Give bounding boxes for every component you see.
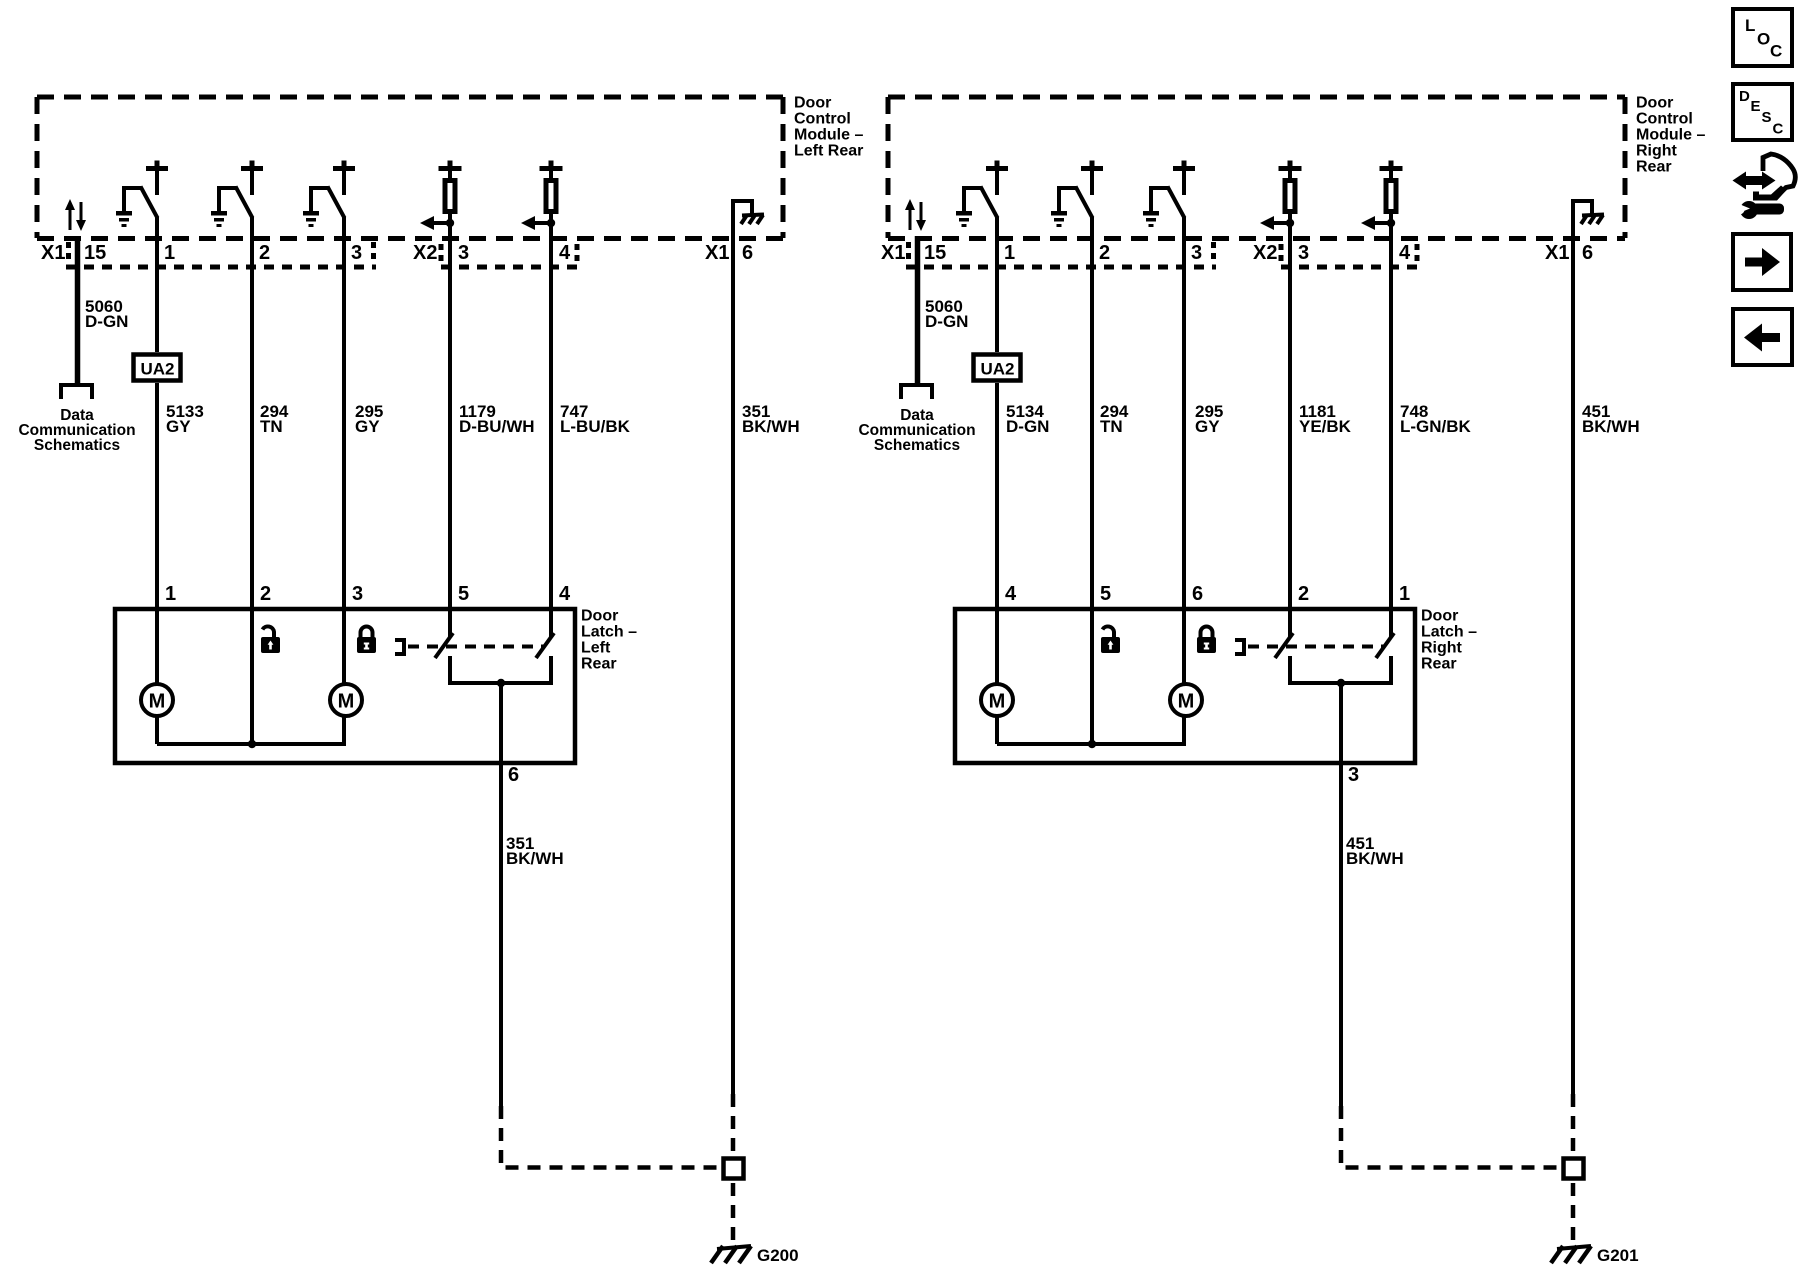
svg-text:X2: X2 — [413, 242, 437, 264]
mechanical linkage dashed R — [1248, 645, 1385, 649]
svg-text:Door: Door — [581, 608, 618, 625]
svg-text:BK/WH: BK/WH — [1582, 417, 1640, 436]
off-page bracket data comm R — [901, 385, 932, 399]
switch pin3 R — [1143, 161, 1195, 228]
svg-text:6: 6 — [1192, 583, 1203, 605]
label latch ground wire L — [506, 834, 564, 868]
switch pin2 R — [1051, 161, 1103, 228]
svg-text:YE/BK: YE/BK — [1299, 417, 1352, 436]
wire X2-3 R — [1288, 214, 1292, 637]
svg-text:Schematics: Schematics — [34, 437, 120, 454]
svg-text:D-GN: D-GN — [925, 312, 968, 331]
nav button back (left arrow) — [1733, 309, 1792, 365]
svg-text:O: O — [1757, 30, 1770, 49]
svg-text:3: 3 — [458, 242, 469, 264]
motor common wire R — [997, 740, 1186, 748]
driver/sensor X2-4 R — [1361, 161, 1403, 241]
connector X1 band L — [66, 242, 376, 267]
module label - left rear — [794, 95, 863, 160]
svg-text:M: M — [989, 691, 1006, 713]
svg-text:6: 6 — [742, 242, 753, 264]
padlock closed (lock) R — [1197, 627, 1216, 654]
svg-text:3: 3 — [351, 242, 362, 264]
svg-text:TN: TN — [260, 417, 283, 436]
label X2-4 wire R — [1400, 402, 1472, 436]
wire X2-4 L — [549, 214, 553, 637]
label 5060 D-GN L — [85, 297, 128, 331]
connector labels L — [41, 242, 753, 264]
internal ground X1-6 L — [731, 199, 764, 240]
svg-text:L-BU/BK: L-BU/BK — [560, 417, 631, 436]
svg-text:X1: X1 — [1545, 242, 1569, 264]
svg-text:G201: G201 — [1597, 1246, 1639, 1265]
svg-text:1: 1 — [165, 583, 176, 605]
svg-text:TN: TN — [1100, 417, 1123, 436]
ground G201 — [1551, 1246, 1591, 1263]
motor M lock L — [330, 684, 362, 716]
svg-text:Right: Right — [1421, 640, 1463, 657]
driver/sensor X2-4 L — [521, 161, 563, 241]
svg-text:3: 3 — [1191, 242, 1202, 264]
padlock open (unlock) L — [261, 626, 280, 653]
motor M lock R — [1170, 684, 1202, 716]
mechanical linkage dashed L — [408, 645, 545, 649]
svg-text:GY: GY — [166, 417, 191, 436]
svg-text:UA2: UA2 — [980, 360, 1014, 379]
latch ground wire 451 BK/WH R — [1339, 683, 1343, 1106]
ajar switch pin5 L — [435, 609, 453, 658]
svg-text:Control: Control — [794, 111, 851, 128]
motor M unlock R — [981, 684, 1013, 716]
nav icon schematic tools (double arrow + wrench) — [1733, 154, 1796, 219]
wire 294 TN pin2 L — [250, 217, 254, 744]
svg-text:BK/WH: BK/WH — [1346, 849, 1404, 868]
svg-text:GY: GY — [355, 417, 380, 436]
svg-text:3: 3 — [352, 583, 363, 605]
nav button LOC — [1733, 9, 1792, 66]
fuse callout UA2 R — [974, 355, 1021, 381]
switch pin2 L — [211, 161, 263, 228]
svg-text:4: 4 — [1005, 583, 1017, 605]
door control module - left rear (dashed box U1L) — [37, 97, 783, 239]
label 294 TN L — [260, 402, 289, 436]
lock motor wire R — [1092, 609, 1184, 744]
svg-text:4: 4 — [559, 242, 571, 264]
svg-text:G200: G200 — [757, 1246, 799, 1265]
svg-text:4: 4 — [559, 583, 571, 605]
svg-text:D: D — [1739, 88, 1750, 105]
svg-text:Left Rear: Left Rear — [794, 143, 863, 160]
dashed run latch to splice L — [501, 1106, 719, 1168]
wire 5133/5134 pin1 R — [995, 217, 999, 609]
svg-text:Door: Door — [1636, 95, 1673, 112]
ajar switch pin4 L — [536, 609, 554, 658]
dashed run module ground to splice L — [731, 1094, 736, 1245]
splice L — [724, 1159, 744, 1179]
connector labels R — [881, 242, 1593, 264]
svg-text:5: 5 — [1100, 583, 1111, 605]
svg-text:Door: Door — [794, 95, 831, 112]
svg-text:5: 5 — [458, 583, 469, 605]
svg-text:L-GN/BK: L-GN/BK — [1400, 417, 1472, 436]
padlock closed (lock) L — [357, 627, 376, 654]
svg-text:3: 3 — [1348, 764, 1359, 786]
padlock open (unlock) R — [1101, 626, 1120, 653]
wire X2-4 R — [1389, 214, 1393, 637]
label X2-3 wire R — [1299, 402, 1352, 436]
label wire pin1 R — [1006, 402, 1049, 436]
svg-text:1: 1 — [1399, 583, 1410, 605]
svg-text:6: 6 — [508, 764, 519, 786]
svg-text:2: 2 — [260, 583, 271, 605]
label 5060 D-GN R — [925, 297, 968, 331]
svg-text:D-BU/WH: D-BU/WH — [459, 417, 535, 436]
svg-text:15: 15 — [924, 242, 946, 264]
ground G200 — [711, 1246, 751, 1263]
svg-text:M: M — [338, 691, 355, 713]
label wire pin1 L — [166, 402, 204, 436]
label X2-4 wire L — [560, 402, 631, 436]
data comm arrows inside module R — [905, 199, 926, 231]
door latch - left rear (box) — [115, 609, 575, 763]
wire 295 GY pin3 R — [1182, 217, 1186, 609]
svg-text:Latch –: Latch – — [581, 624, 637, 641]
internal ground X1-6 R — [1571, 199, 1604, 240]
wire 5060 D-GN data line L — [75, 236, 81, 383]
door latch - right rear (box) — [955, 609, 1415, 763]
svg-text:BK/WH: BK/WH — [742, 417, 800, 436]
latch pin labels R — [1005, 583, 1410, 786]
svg-text:15: 15 — [84, 242, 106, 264]
svg-text:M: M — [149, 691, 166, 713]
svg-text:Right: Right — [1636, 143, 1678, 160]
wire 5133/5134 pin1 L — [155, 217, 159, 609]
svg-text:Rear: Rear — [1636, 159, 1672, 176]
svg-text:2: 2 — [1298, 583, 1309, 605]
driver/sensor X2-3 L — [420, 161, 462, 241]
data comm arrows inside module L — [65, 199, 86, 231]
lock motor wire L — [252, 609, 344, 744]
unlock motor L — [155, 609, 159, 744]
svg-text:4: 4 — [1399, 242, 1411, 264]
latch label - right rear — [1421, 608, 1477, 673]
mechanical linkage bracket L — [395, 638, 404, 656]
lock output switch pin1 R — [956, 161, 1008, 228]
svg-text:C: C — [1773, 121, 1784, 138]
svg-text:X1: X1 — [705, 242, 729, 264]
latch pin labels L — [165, 583, 571, 786]
label X2-3 wire L — [459, 402, 535, 436]
module label - right rear — [1636, 95, 1705, 176]
wire 351/451 BK/WH module ground R — [1571, 238, 1575, 1094]
nav button DESC — [1733, 84, 1792, 140]
svg-text:Rear: Rear — [581, 656, 617, 673]
label 295 GY R — [1195, 402, 1223, 436]
dashed run module ground to splice R — [1571, 1094, 1576, 1245]
svg-text:Module –: Module – — [1636, 127, 1705, 144]
label data communication schematics R — [858, 407, 975, 454]
label 294 TN R — [1100, 402, 1129, 436]
svg-text:S: S — [1762, 109, 1772, 126]
svg-text:E: E — [1751, 98, 1761, 115]
svg-text:Door: Door — [1421, 608, 1458, 625]
wire 351/451 BK/WH module ground L — [731, 238, 735, 1094]
door control module - right rear (dashed box U1R) — [888, 97, 1625, 239]
svg-text:Left: Left — [581, 640, 611, 657]
svg-text:Rear: Rear — [1421, 656, 1457, 673]
svg-text:2: 2 — [1099, 242, 1110, 264]
connector X2 band L — [441, 244, 577, 267]
svg-text:Control: Control — [1636, 111, 1693, 128]
switch pin3 L — [303, 161, 355, 228]
wire X2-3 L — [448, 214, 452, 637]
nav button next (right arrow) — [1733, 234, 1791, 290]
connector X1 band R — [906, 242, 1216, 267]
connector X2 band R — [1281, 244, 1417, 267]
label module ground wire L — [742, 402, 800, 436]
svg-text:D-GN: D-GN — [85, 312, 128, 331]
svg-text:M: M — [1178, 691, 1195, 713]
wire 294 TN pin2 R — [1090, 217, 1094, 744]
wire 295 GY pin3 L — [342, 217, 346, 609]
svg-text:Schematics: Schematics — [874, 437, 960, 454]
svg-text:2: 2 — [259, 242, 270, 264]
dashed run latch to splice R — [1341, 1106, 1559, 1168]
off-page bracket data comm L — [61, 385, 92, 399]
svg-text:6: 6 — [1582, 242, 1593, 264]
svg-text:BK/WH: BK/WH — [506, 849, 564, 868]
switch common bracket R — [1290, 656, 1391, 687]
label latch ground wire R — [1346, 834, 1404, 868]
svg-text:L: L — [1745, 16, 1755, 35]
svg-text:X2: X2 — [1253, 242, 1277, 264]
fuse callout UA2 L — [134, 355, 181, 381]
svg-text:X1: X1 — [41, 242, 65, 264]
driver/sensor X2-3 R — [1260, 161, 1302, 241]
ajar switch pin4 R — [1376, 609, 1394, 658]
svg-text:C: C — [1770, 42, 1782, 61]
splice R — [1564, 1159, 1584, 1179]
svg-text:1: 1 — [164, 242, 175, 264]
wire 5060 D-GN data line R — [915, 236, 921, 383]
svg-text:D-GN: D-GN — [1006, 417, 1049, 436]
motor M unlock L — [141, 684, 173, 716]
svg-text:Module –: Module – — [794, 127, 863, 144]
latch ground wire 351 BK/WH L — [499, 683, 503, 1106]
svg-text:3: 3 — [1298, 242, 1309, 264]
mechanical linkage bracket R — [1235, 638, 1244, 656]
switch common bracket L — [450, 656, 551, 687]
unlock motor R — [995, 609, 999, 744]
label module ground wire R — [1582, 402, 1640, 436]
svg-text:Latch –: Latch – — [1421, 624, 1477, 641]
label data communication schematics L — [18, 407, 135, 454]
label 295 GY L — [355, 402, 383, 436]
svg-text:1: 1 — [1004, 242, 1015, 264]
latch label - left rear — [581, 608, 637, 673]
lock output switch pin1 L — [116, 161, 168, 228]
ajar switch pin5 R — [1275, 609, 1293, 658]
svg-text:GY: GY — [1195, 417, 1220, 436]
motor common wire L — [157, 740, 346, 748]
svg-text:UA2: UA2 — [140, 360, 174, 379]
svg-text:X1: X1 — [881, 242, 905, 264]
